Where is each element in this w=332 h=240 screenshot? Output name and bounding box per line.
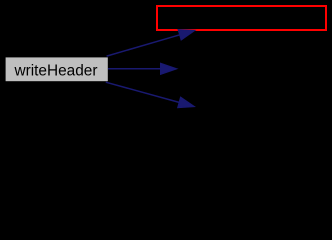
node writeHeader: [6, 57, 108, 81]
wire edge 1: writeHeader to red node: [107, 30, 195, 57]
wire edge 3: writeHeader to bottom callee: [106, 82, 195, 107]
node highlighted callee (red box): [157, 6, 326, 30]
svg-text:writeHeader: writeHeader: [14, 63, 98, 80]
wire edge 2: writeHeader to middle callee: [108, 63, 177, 74]
